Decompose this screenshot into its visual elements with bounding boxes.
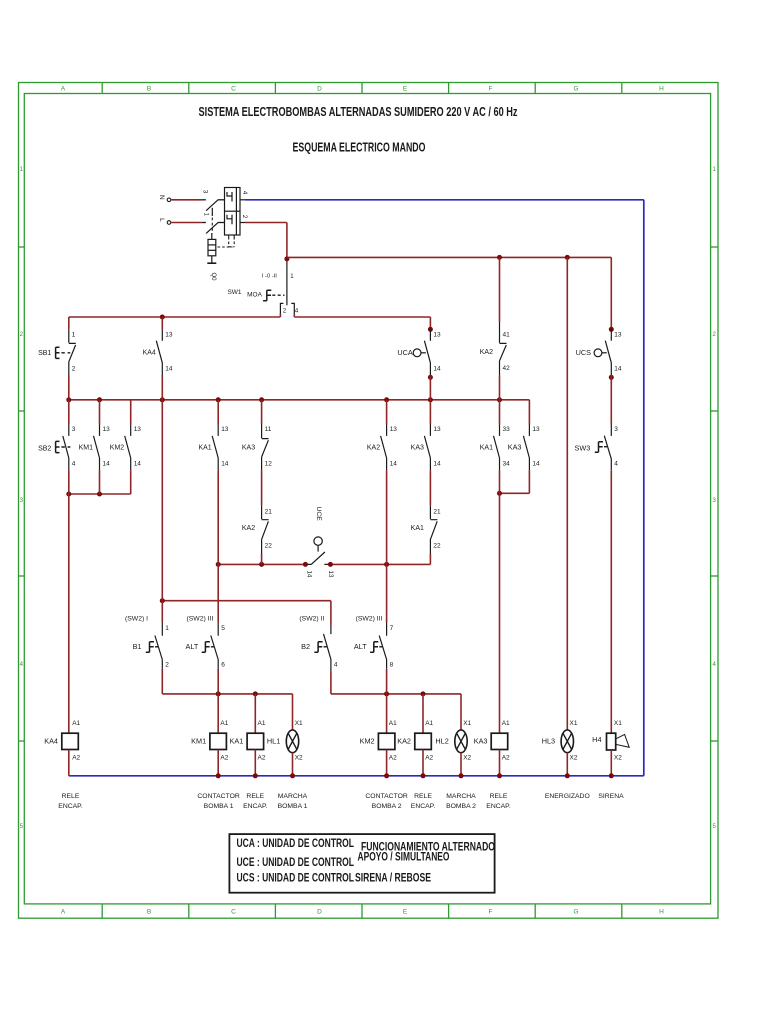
svg-text:3: 3: [72, 426, 76, 433]
wire SW1-4 riser: [293, 314, 295, 318]
node N rail KM1: [216, 773, 221, 778]
svg-text:ALT: ALT: [354, 642, 367, 651]
svg-text:KM2: KM2: [110, 444, 125, 451]
svg-text:14: 14: [532, 461, 540, 468]
svg-text:RELE: RELE: [62, 793, 80, 800]
wire KA3 to KA1 21: [429, 470, 431, 505]
svg-text:I -0 -II: I -0 -II: [262, 274, 278, 280]
svg-text:H: H: [659, 86, 664, 93]
wire B2 feed down: [330, 601, 332, 626]
node rail 600 left end: [160, 598, 165, 603]
svg-text:7: 7: [390, 625, 394, 632]
svg-text:CONTACTOR: CONTACTOR: [365, 793, 408, 800]
wire KA3 coil to N rail: [499, 750, 501, 776]
contactor coil KM2: [378, 733, 395, 749]
svg-text:B2: B2: [301, 642, 310, 651]
svg-text:A1: A1: [258, 720, 266, 727]
wire main bus rail 400: [69, 399, 530, 401]
wire KM2 contact feed: [130, 400, 132, 425]
node UCA top terminal: [428, 327, 433, 332]
svg-text:ENCAP.: ENCAP.: [58, 803, 83, 810]
fuse link dashes: [218, 246, 233, 248]
node N rail HL1: [290, 773, 295, 778]
svg-text:(SW2) II: (SW2) II: [299, 616, 324, 623]
node bus 400: [160, 397, 165, 402]
svg-text:34: 34: [503, 461, 511, 468]
svg-text:D: D: [317, 909, 322, 916]
svg-text:5: 5: [221, 625, 225, 632]
svg-text:13: 13: [134, 426, 142, 433]
svg-text:SB2: SB2: [38, 445, 51, 452]
svg-text:KA1: KA1: [480, 444, 493, 451]
svg-text:21: 21: [265, 509, 273, 516]
node rail 564: [384, 562, 389, 567]
svg-text:13: 13: [614, 331, 622, 338]
svg-text:KA2: KA2: [397, 737, 411, 746]
svg-text:A: A: [61, 909, 66, 916]
relay coil KA4: [62, 733, 79, 749]
svg-text:CONTACTOR: CONTACTOR: [197, 793, 240, 800]
svg-text:KA3: KA3: [508, 442, 522, 451]
wire ALT2 to rail 694: [386, 669, 388, 694]
lamp HL3: [561, 730, 573, 753]
svg-text:4: 4: [614, 461, 618, 468]
svg-text:13: 13: [327, 571, 334, 578]
svg-text:A1: A1: [72, 720, 80, 727]
switch blade N pole: [206, 200, 218, 211]
svg-text:2: 2: [165, 661, 169, 668]
svg-text:B: B: [147, 909, 151, 916]
switch B1 (SW2 I): [155, 622, 162, 669]
svg-text:A: A: [61, 86, 66, 93]
node UCS bottom terminal: [609, 375, 614, 380]
svg-text:MOA: MOA: [247, 291, 262, 298]
node N rail H4: [609, 773, 614, 778]
wire KA1 contact feed: [217, 400, 219, 425]
contact KA1 21-22: [430, 505, 437, 553]
node bus 400: [259, 397, 264, 402]
wire KA2 41-42 feed: [499, 257, 501, 322]
legend box: [229, 834, 494, 893]
svg-text:2: 2: [72, 365, 76, 372]
svg-text:1: 1: [165, 625, 169, 632]
svg-text:13: 13: [103, 426, 111, 433]
wire KA1 34 to rail 493: [499, 470, 501, 493]
node HL3 column: [565, 255, 570, 260]
svg-text:SB1: SB1: [38, 350, 51, 357]
svg-text:RELE: RELE: [246, 793, 264, 800]
svg-text:B1: B1: [133, 642, 142, 651]
wire KM1 coil to N rail: [217, 750, 219, 776]
svg-text:UCS : UNIDAD DE CONTROL: UCS : UNIDAD DE CONTROL: [237, 873, 355, 885]
wire HL3 to N rail: [566, 753, 568, 776]
wire KA2 42 to bus: [499, 376, 501, 400]
svg-text:RELE: RELE: [414, 793, 432, 800]
svg-text:A2: A2: [502, 755, 510, 762]
node bus 400: [428, 397, 433, 402]
selector switch SW1: [286, 261, 288, 305]
wire KA2 22 to rail 564: [261, 554, 263, 565]
wire HL1 feed: [292, 694, 294, 730]
wire rail 564 right segment: [330, 563, 430, 565]
wire KA1 22 to rail 564: [429, 554, 431, 565]
contact KA2 21-22: [262, 505, 269, 553]
svg-text:13: 13: [390, 426, 398, 433]
svg-text:ENERGIZADO: ENERGIZADO: [545, 793, 590, 800]
node bus 400: [384, 397, 389, 402]
wire UCA feed down: [429, 317, 431, 329]
breaker output stubs: [240, 199, 245, 201]
svg-text:12: 12: [265, 461, 273, 468]
wire rail 494 left group: [69, 493, 131, 495]
wire N blue top: [245, 199, 644, 201]
node bus 400: [216, 397, 221, 402]
svg-text:A2: A2: [425, 755, 433, 762]
svg-text:ENCAP.: ENCAP.: [486, 803, 511, 810]
wire UCS to SW3: [610, 375, 612, 425]
node rail 494: [66, 492, 71, 497]
svg-text:A2: A2: [389, 755, 397, 762]
relay coil KA2: [415, 733, 432, 749]
svg-text:14: 14: [390, 461, 398, 468]
wire KA4 contact feed: [161, 317, 163, 329]
wire HL2 feed: [460, 694, 462, 730]
node rail 694 KA2: [421, 691, 426, 696]
wire B1 to rail 694: [161, 669, 163, 694]
svg-text:1: 1: [72, 331, 76, 338]
svg-text:D: D: [317, 86, 322, 93]
svg-text:14: 14: [134, 461, 142, 468]
svg-text:ENCAP.: ENCAP.: [243, 803, 268, 810]
wire down to KA4 coil: [68, 494, 70, 733]
wire KA4 coil to N rail: [68, 750, 70, 776]
node rail 694 KM2: [384, 691, 389, 696]
wire SB2 to rail 494: [68, 470, 70, 494]
svg-text:C: C: [231, 86, 236, 93]
wire rail 564 left segment: [218, 563, 305, 565]
wire B1 feed: [161, 601, 163, 623]
svg-text:A2: A2: [72, 755, 80, 762]
svg-text:MARCHA: MARCHA: [278, 793, 308, 800]
svg-text:UCE : UNIDAD DE CONTROL: UCE : UNIDAD DE CONTROL: [237, 857, 355, 869]
wire rail 257 to UCS column: [287, 256, 611, 258]
wire KM2 coil feed: [386, 694, 388, 733]
switch blade L pole: [206, 222, 218, 233]
node KA2 41 column: [497, 255, 502, 260]
svg-text:APOYO / SIMULTANEO: APOYO / SIMULTANEO: [358, 852, 450, 864]
svg-text:X1: X1: [570, 720, 578, 727]
contact KA2 13-14: [381, 425, 387, 471]
wire KA1 down to rail 564: [217, 470, 219, 564]
svg-text:BOMBA 2: BOMBA 2: [446, 803, 476, 810]
svg-text:A2: A2: [258, 755, 266, 762]
wire KM2 to rail 494: [130, 470, 132, 494]
wire H4 to N rail: [610, 750, 612, 776]
switch SW3: [604, 425, 611, 471]
wire down to KA3 coil: [499, 493, 501, 733]
svg-text:F: F: [489, 909, 493, 916]
wire rail 317 left: [69, 316, 281, 318]
svg-text:X1: X1: [463, 720, 471, 727]
svg-text:A1: A1: [425, 720, 433, 727]
svg-text:33: 33: [503, 426, 511, 433]
svg-text:13: 13: [221, 426, 229, 433]
wire UCS feed: [610, 257, 612, 329]
breaker bottom legs with link: [229, 235, 235, 240]
svg-text:6: 6: [221, 661, 225, 668]
node UCS top terminal: [609, 327, 614, 332]
wire KA3 11-12 feed: [261, 400, 263, 425]
lamp HL2: [455, 730, 467, 753]
contact KA2 41-42: [500, 322, 507, 376]
wire N terminal to breaker: [171, 199, 202, 201]
svg-text:E: E: [403, 909, 408, 916]
svg-text:KA4: KA4: [44, 737, 58, 746]
node N rail HL3: [565, 773, 570, 778]
wire KA4 contact down to rail 600: [161, 375, 163, 601]
wire KM1 coil feed: [217, 694, 219, 733]
fuse F1: [207, 233, 216, 263]
wire rail 694 left segment: [162, 693, 292, 695]
wire rail 493 right pair: [500, 492, 530, 494]
svg-text:4: 4: [72, 461, 76, 468]
siren H4: [607, 733, 630, 750]
svg-text:C: C: [231, 909, 236, 916]
svg-text:22: 22: [433, 543, 441, 550]
svg-text:KA3: KA3: [242, 444, 255, 451]
svg-text:KA3: KA3: [411, 444, 424, 451]
wire ALT2 feed: [386, 564, 388, 622]
svg-text:ESQUEMA ELECTRICO MANDO: ESQUEMA ELECTRICO MANDO: [293, 140, 426, 155]
svg-text:X2: X2: [570, 755, 578, 762]
svg-text:BOMBA 2: BOMBA 2: [372, 803, 402, 810]
node rail 694 KA1: [253, 691, 258, 696]
svg-text:E: E: [403, 86, 408, 93]
svg-text:HL3: HL3: [542, 736, 555, 745]
svg-text:BOMBA 1: BOMBA 1: [278, 803, 308, 810]
node N rail KA2: [421, 773, 426, 778]
contact KM1 13-14: [94, 425, 100, 471]
svg-text:KM1: KM1: [79, 444, 94, 451]
svg-text:UCA : UNIDAD DE CONTROL: UCA : UNIDAD DE CONTROL: [237, 838, 355, 850]
svg-text:X2: X2: [614, 755, 622, 762]
contact KA3 13-14: [424, 425, 430, 471]
wire KA3 14 to rail 493: [528, 470, 530, 493]
circuit breaker Q1 body: [225, 188, 241, 236]
svg-text:14: 14: [433, 365, 441, 372]
contact KA1 13-14: [212, 425, 218, 471]
node N rail KA3: [497, 773, 502, 778]
svg-text:SIRENA / REBOSE: SIRENA / REBOSE: [355, 873, 431, 885]
svg-text:G: G: [573, 86, 578, 93]
svg-text:14: 14: [165, 365, 173, 372]
float switch UCE: [305, 537, 330, 565]
svg-text:14: 14: [614, 365, 622, 372]
wire SW3 down to H4: [610, 470, 612, 733]
node KA4 top: [160, 315, 165, 320]
svg-text:(SW2) I: (SW2) I: [125, 616, 148, 623]
svg-text:A1: A1: [389, 720, 397, 727]
svg-text:11: 11: [265, 426, 272, 433]
node UCA bottom terminal: [428, 375, 433, 380]
border frame (decorative): [19, 83, 719, 919]
svg-text:KM2: KM2: [360, 737, 375, 746]
svg-text:KA1: KA1: [230, 737, 244, 746]
relay coil KA1: [247, 733, 264, 749]
svg-text:BOMBA 1: BOMBA 1: [204, 803, 234, 810]
svg-text:KA2: KA2: [242, 525, 255, 532]
svg-text:KA2: KA2: [367, 444, 380, 451]
contact KA4 13-14: [156, 329, 162, 375]
wire KA2 coil feed: [422, 694, 424, 733]
svg-text:KA1: KA1: [198, 444, 211, 451]
svg-text:H4: H4: [592, 735, 601, 744]
node N rail KA1: [253, 773, 258, 778]
svg-text:ENCAP.: ENCAP.: [411, 803, 436, 810]
svg-text:RELE: RELE: [490, 793, 508, 800]
switch ALT1 (SW2 III): [211, 622, 218, 669]
svg-text:X1: X1: [295, 720, 303, 727]
svg-text:KA1: KA1: [411, 525, 424, 532]
wire KA1 coil to N rail: [254, 750, 256, 776]
svg-text:KA3: KA3: [474, 737, 488, 746]
svg-text:N: N: [158, 195, 165, 200]
svg-text:14: 14: [221, 461, 229, 468]
svg-text:UCE: UCE: [315, 507, 322, 522]
svg-text:UCS: UCS: [576, 348, 592, 357]
contact KM2 13-14: [125, 425, 131, 471]
wire B2 to rail 694: [330, 672, 332, 694]
wire SB1 column: [68, 317, 70, 329]
svg-text:SW1: SW1: [227, 289, 241, 296]
wire KA3 13-14 feed: [429, 400, 431, 425]
svg-text:A2: A2: [220, 755, 228, 762]
wire N blue right vertical: [643, 200, 645, 776]
node bus 400: [66, 397, 71, 402]
wire SW1-2 riser: [279, 314, 281, 318]
contact KA3 11-12: [262, 425, 269, 471]
svg-text:13: 13: [433, 331, 441, 338]
node rail 493: [497, 491, 502, 496]
node rail 564: [259, 562, 264, 567]
wire KA3 to KA2 21: [261, 470, 263, 505]
contact UCA 13-14: [424, 329, 430, 375]
svg-text:H: H: [659, 909, 664, 916]
wire L down to node: [286, 223, 288, 259]
wire bus corner down to KA3: [528, 400, 530, 425]
wire HL1 to N rail: [292, 753, 294, 776]
switch B2 (SW2 II): [324, 626, 331, 672]
wire rail 317 right: [294, 316, 430, 318]
svg-text:L: L: [158, 218, 165, 222]
wire SB2 feed: [68, 400, 70, 425]
node rail 494 KM1: [97, 492, 102, 497]
wire UCA to bus: [429, 375, 431, 400]
node N rail HL2: [459, 773, 464, 778]
svg-text:MARCHA: MARCHA: [446, 793, 476, 800]
switch ALT2 (SW2 III): [379, 622, 386, 669]
svg-text:8: 8: [390, 661, 394, 668]
svg-text:SISTEMA ELECTROBOMBAS ALTERNAD: SISTEMA ELECTROBOMBAS ALTERNADAS SUMIDER…: [199, 104, 518, 119]
node rail 564: [216, 562, 221, 567]
wire SB1 to bus: [68, 375, 70, 400]
wire KM1 contact feed: [99, 400, 101, 425]
wire KM1 to rail 494: [99, 470, 101, 494]
svg-text:UCA: UCA: [397, 348, 413, 357]
wire KA2 13-14 feed: [386, 400, 388, 425]
wire KA2 down to rail 564: [386, 470, 388, 564]
svg-text:13: 13: [532, 426, 540, 433]
pushbutton SB2: [63, 425, 69, 471]
svg-text:HL2: HL2: [435, 736, 448, 745]
svg-text:F: F: [489, 86, 493, 93]
svg-text:14: 14: [306, 571, 313, 578]
svg-text:(SW2) III: (SW2) III: [356, 616, 383, 623]
node SW1 feed: [284, 256, 289, 261]
svg-text:KA2: KA2: [480, 349, 493, 356]
svg-text:KM1: KM1: [191, 737, 206, 746]
svg-text:ALT: ALT: [185, 642, 198, 651]
svg-text:X2: X2: [463, 755, 471, 762]
wire KA1 coil feed: [254, 694, 256, 733]
node bus 400: [97, 397, 102, 402]
contact UCS 13-14: [605, 329, 611, 375]
wire HL3 feed: [566, 257, 568, 730]
wire L terminal to breaker: [171, 222, 202, 224]
relay coil KA3: [491, 733, 508, 749]
contactor coil KM1: [210, 733, 227, 749]
wire KA2 coil to N rail: [422, 750, 424, 776]
svg-text:14: 14: [103, 461, 111, 468]
contact KA1 33-34: [494, 425, 500, 471]
wire ALT1 feed crossing rail 600: [217, 564, 219, 622]
svg-text:A1: A1: [502, 720, 510, 727]
wire KA1 33-34 feed: [499, 400, 501, 425]
svg-text:22: 22: [265, 543, 273, 550]
svg-text:13: 13: [165, 331, 173, 338]
svg-text:X2: X2: [295, 755, 303, 762]
svg-text:4: 4: [334, 661, 338, 668]
svg-text:B: B: [147, 86, 151, 93]
svg-text:21: 21: [433, 509, 441, 516]
svg-text:41: 41: [503, 332, 511, 339]
svg-text:SIRENA: SIRENA: [598, 793, 624, 800]
svg-text:HL1: HL1: [267, 736, 280, 745]
svg-text:SW3: SW3: [574, 443, 590, 452]
svg-text:42: 42: [503, 365, 511, 372]
svg-text:Q0: Q0: [210, 272, 216, 281]
svg-text:3: 3: [614, 426, 618, 433]
lamp HL1: [286, 730, 298, 753]
wire KM2 coil to N rail: [386, 750, 388, 776]
wire rail 600 B1-B2: [162, 600, 331, 602]
svg-text:(SW2) III: (SW2) III: [187, 616, 214, 623]
pushbutton SB1: [69, 329, 76, 375]
node N rail KM2: [384, 773, 389, 778]
node bus 400: [497, 397, 502, 402]
node rail 694 KM1: [216, 691, 221, 696]
svg-text:A1: A1: [220, 720, 228, 727]
wire N blue bottom rail: [69, 775, 644, 777]
wire rail 694 right segment: [331, 693, 461, 695]
svg-text:13: 13: [433, 426, 441, 433]
mechanical link dashes: [211, 208, 213, 216]
svg-text:X1: X1: [614, 720, 622, 727]
wire L from breaker: [245, 222, 287, 224]
svg-text:14: 14: [433, 461, 441, 468]
wire HL2 to N rail: [460, 753, 462, 776]
svg-text:KA4: KA4: [143, 349, 156, 356]
